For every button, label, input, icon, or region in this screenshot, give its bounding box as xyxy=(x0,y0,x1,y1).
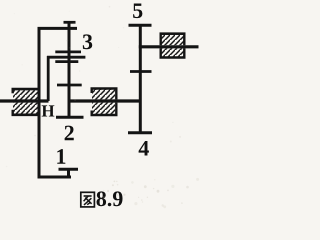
middle cap on column xyxy=(130,70,152,73)
caption text 8.9 xyxy=(97,191,123,206)
label 4 xyxy=(139,141,149,155)
gear 2 cap xyxy=(56,116,84,119)
frame bracket top horizontal to ring gear 3 xyxy=(38,27,78,30)
right bearing upper block xyxy=(160,34,186,46)
gear cap above carrier arm xyxy=(55,51,81,54)
input shaft (left) xyxy=(0,99,49,102)
planet axle top cap (gear 3 mesh) xyxy=(64,21,76,24)
carrier H arm xyxy=(47,56,85,59)
label 3 xyxy=(83,34,92,49)
center bearing upper block xyxy=(91,89,118,100)
paper speckle noise xyxy=(6,6,199,208)
middle shaft xyxy=(69,99,142,102)
gear 2' cap xyxy=(57,84,82,87)
planet axle stem xyxy=(68,21,71,119)
carrier H vertical xyxy=(47,56,50,101)
gear 5 cap xyxy=(129,24,152,27)
left bearing upper block xyxy=(12,89,40,99)
label 2 xyxy=(65,126,74,141)
gear 1 stem xyxy=(67,168,70,178)
output column (gears 4-5 shaft line) xyxy=(139,24,142,134)
frame bracket bottom horizontal to gear 1 xyxy=(38,176,72,179)
output shaft (upper right) xyxy=(139,45,199,48)
gear cap below carrier arm xyxy=(55,60,78,63)
paper background xyxy=(0,0,204,213)
left bearing lower block xyxy=(12,103,40,115)
label 1 xyxy=(57,149,65,164)
caption hanzi tu (figure) xyxy=(81,192,95,207)
label H xyxy=(42,105,55,116)
right bearing lower block xyxy=(160,48,186,57)
gear 4 cap xyxy=(128,131,152,134)
center bearing lower block xyxy=(91,103,118,115)
gear 1 cap xyxy=(59,168,79,171)
frame bracket vertical (left) xyxy=(38,27,41,178)
label 5 xyxy=(133,3,142,18)
